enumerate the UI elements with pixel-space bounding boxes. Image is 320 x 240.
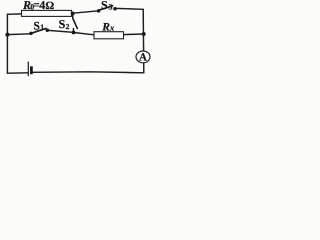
svg-text:x: x bbox=[109, 23, 115, 33]
svg-text:3: 3 bbox=[109, 3, 113, 12]
svg-text:4: 4 bbox=[39, 0, 45, 12]
svg-text:S: S bbox=[59, 17, 66, 31]
svg-text:Ω: Ω bbox=[45, 0, 54, 12]
svg-text:S: S bbox=[101, 0, 108, 12]
svg-text:2: 2 bbox=[66, 22, 70, 31]
svg-text:R: R bbox=[101, 22, 110, 34]
svg-text:S: S bbox=[34, 20, 40, 32]
svg-text:A: A bbox=[139, 51, 147, 63]
svg-text:1: 1 bbox=[40, 23, 44, 32]
